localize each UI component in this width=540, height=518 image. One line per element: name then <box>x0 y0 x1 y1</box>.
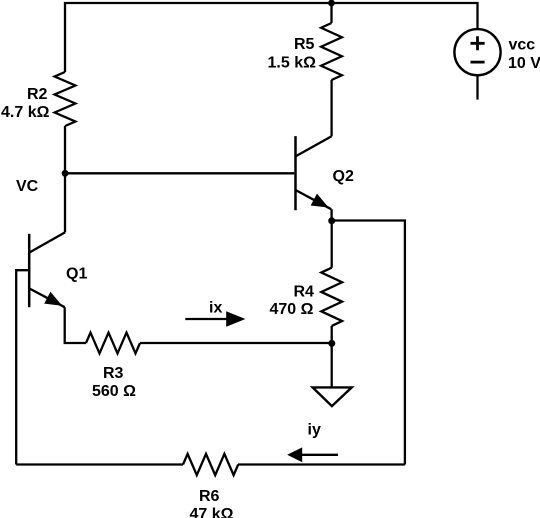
wire bottom right <box>238 463 405 465</box>
wire top to R5 <box>330 3 332 23</box>
svg-text:R6: R6 <box>199 488 220 505</box>
svg-text:1.5 kΩ: 1.5 kΩ <box>268 54 317 71</box>
wire Q2 emitter to node <box>330 209 332 220</box>
svg-text:560 Ω: 560 Ω <box>92 383 136 400</box>
wire VC to Q2 base <box>65 172 294 174</box>
node VC <box>62 170 69 177</box>
wire R5 to Q2 collector <box>330 80 332 136</box>
resistor R5 <box>321 23 342 80</box>
resistor R2 <box>55 72 76 126</box>
wire top rail <box>65 3 478 72</box>
resistor R3 <box>86 333 140 354</box>
svg-text:47 kΩ: 47 kΩ <box>190 506 234 518</box>
svg-text:ix: ix <box>209 300 222 317</box>
source vcc <box>454 29 500 75</box>
svg-text:iy: iy <box>308 422 321 439</box>
wire R3 to R4 node <box>140 342 332 344</box>
wire R4 bottom to ground <box>331 326 333 387</box>
svg-text:Q2: Q2 <box>333 168 354 185</box>
ground <box>313 387 352 406</box>
wire node right and down right side <box>332 221 405 465</box>
wire vcc bottom stub <box>476 75 478 99</box>
resistor R6 <box>183 454 238 475</box>
transistor Q2 <box>294 136 297 210</box>
svg-text:R2: R2 <box>27 86 48 103</box>
wire R2 bottom to Q1 collector <box>64 126 66 232</box>
wire Q1 emitter down to R3 <box>65 307 86 343</box>
svg-text:470 Ω: 470 Ω <box>270 301 314 318</box>
svg-text:R3: R3 <box>103 365 124 382</box>
node R4 bottom <box>328 340 335 347</box>
svg-text:4.7 kΩ: 4.7 kΩ <box>1 104 50 121</box>
resistor R4 <box>321 268 342 326</box>
wire Q1 base to left rail down <box>16 270 29 464</box>
arrow ix <box>185 318 229 320</box>
svg-text:R4: R4 <box>294 283 315 300</box>
wire bottom left <box>16 463 183 465</box>
svg-text:R5: R5 <box>294 36 315 53</box>
svg-text:Q1: Q1 <box>66 266 87 283</box>
transistor Q1 <box>28 234 31 307</box>
svg-text:VC: VC <box>16 178 39 195</box>
node top of R5 <box>328 0 335 6</box>
node Q2 emitter <box>328 217 335 224</box>
svg-text:10 V: 10 V <box>508 55 540 72</box>
wire node to R4 <box>331 221 333 268</box>
svg-text:vcc: vcc <box>509 37 536 54</box>
arrow iy <box>301 454 338 456</box>
